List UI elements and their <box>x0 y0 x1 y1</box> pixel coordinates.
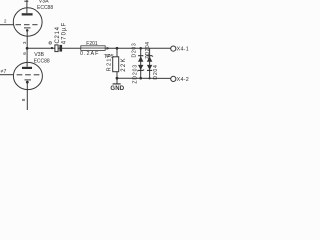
svg-text:V3A: V3A <box>39 0 49 4</box>
svg-text:22K: 22K <box>121 57 127 72</box>
svg-text:6: 6 <box>22 52 27 55</box>
svg-text:F201: F201 <box>86 41 98 47</box>
svg-text:D203: D203 <box>131 43 137 58</box>
svg-text:8: 8 <box>21 98 27 101</box>
svg-text:≠7: ≠7 <box>1 69 7 75</box>
svg-text:C214: C214 <box>55 26 61 43</box>
svg-text:ZD204: ZD204 <box>145 42 151 59</box>
svg-text:3: 3 <box>22 41 27 44</box>
svg-text:ECC88: ECC88 <box>34 58 50 64</box>
svg-text:GND: GND <box>110 86 124 92</box>
svg-text:ECC88: ECC88 <box>37 5 53 11</box>
svg-text:X4-2: X4-2 <box>177 77 189 83</box>
svg-text:0.2AF: 0.2AF <box>80 51 99 57</box>
svg-text:X4-1: X4-1 <box>177 47 189 53</box>
svg-text:D204: D204 <box>153 64 159 79</box>
svg-text:ZD203: ZD203 <box>133 64 139 84</box>
svg-text:R215: R215 <box>107 53 113 72</box>
svg-text:V3B: V3B <box>34 52 44 58</box>
svg-text:470µF: 470µF <box>61 22 67 45</box>
